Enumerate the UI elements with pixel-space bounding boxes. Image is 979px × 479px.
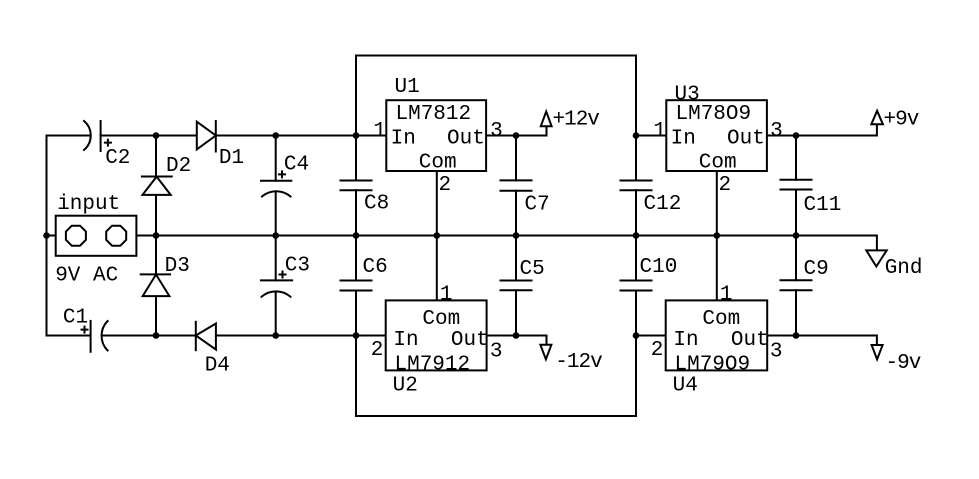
wire top rail left segment to C2 bbox=[47, 135, 91, 137]
junction node U2 input / C6 bbox=[353, 332, 360, 339]
svg-text:Out: Out bbox=[731, 329, 769, 352]
junction node ground / U3-U4 common bbox=[714, 232, 721, 239]
svg-text:In: In bbox=[391, 128, 416, 151]
wire left vertical rail bbox=[46, 136, 48, 336]
connector J1 pin 2 circle bbox=[106, 226, 126, 246]
svg-text:3: 3 bbox=[490, 120, 503, 143]
svg-text:C11: C11 bbox=[804, 194, 842, 217]
svg-text:D2: D2 bbox=[166, 155, 191, 178]
junction node D3 anode / D4 cathode bbox=[153, 332, 160, 339]
svg-text:C2: C2 bbox=[105, 147, 130, 170]
wire unregulated feed to U3 In (pin 1) bbox=[636, 135, 666, 137]
svg-text:D4: D4 bbox=[205, 355, 230, 378]
connector J1 pin 1 circle bbox=[66, 226, 86, 246]
svg-text:+9v: +9v bbox=[884, 109, 919, 132]
svg-text:2: 2 bbox=[651, 339, 664, 362]
svg-text:U1: U1 bbox=[395, 76, 420, 99]
svg-text:C12: C12 bbox=[644, 193, 682, 216]
wire U1 Out (pin 3) to +12v stub bbox=[486, 126, 546, 136]
junction node ground / D2-D3 bbox=[153, 232, 160, 239]
wire C7 column top bbox=[515, 136, 517, 181]
wire D2 column top bbox=[155, 136, 157, 177]
wire U3 pin 2 / U4 pin 1 common column bbox=[716, 171, 718, 300]
wire C5 column bottom bbox=[515, 290, 517, 335]
svg-text:Gnd: Gnd bbox=[885, 257, 923, 280]
wire D2 to D3 column bbox=[155, 195, 157, 275]
junction node -9v out / C9 bbox=[793, 332, 800, 339]
wire C3 column bottom bbox=[275, 292, 277, 336]
wire U1 pin 2 / U2 pin 1 common column bbox=[436, 171, 438, 301]
junction node U1 input / C8 bbox=[353, 132, 360, 139]
junction node ground / C11-C9 bbox=[793, 232, 800, 239]
capacitor C8 bbox=[341, 180, 372, 182]
svg-text:D3: D3 bbox=[165, 255, 190, 278]
svg-text:Out: Out bbox=[451, 329, 489, 352]
svg-text:Out: Out bbox=[447, 128, 485, 151]
junction node +9v out / C11 bbox=[793, 132, 800, 139]
wire bottom rail left segment to C1 bbox=[47, 335, 90, 337]
wire U3 Out (pin 3) to +9v stub bbox=[767, 124, 877, 135]
svg-text:In: In bbox=[673, 329, 698, 352]
wire top rail D1 to U1 In (pin 1) bbox=[216, 135, 386, 137]
capacitor C12 bbox=[621, 180, 652, 182]
svg-text:-12v: -12v bbox=[555, 351, 602, 374]
capacitor C11 bbox=[781, 179, 812, 181]
svg-text:3: 3 bbox=[770, 341, 783, 364]
wire D3 column bottom bbox=[155, 296, 157, 335]
capacitor C2 bbox=[84, 121, 91, 150]
junction node +12v out / C7 bbox=[513, 132, 520, 139]
svg-text:C5: C5 bbox=[520, 258, 545, 281]
wire unregulated loop top bbox=[356, 56, 636, 181]
svg-text:-9v: -9v bbox=[886, 352, 921, 375]
svg-text:In: In bbox=[671, 128, 696, 151]
capacitor C7 bbox=[501, 179, 532, 181]
svg-text:1: 1 bbox=[440, 284, 453, 307]
wire C11 to C9 column bbox=[795, 190, 797, 281]
svg-text:1: 1 bbox=[720, 284, 733, 307]
svg-text:LM7912: LM7912 bbox=[395, 353, 471, 376]
svg-text:Com: Com bbox=[422, 308, 460, 331]
svg-text:+12v: +12v bbox=[553, 109, 600, 132]
capacitor C6 bbox=[341, 280, 372, 282]
junction node ground / C12-C10 bbox=[633, 232, 640, 239]
wire loop right C12 to C10 bbox=[635, 190, 637, 280]
svg-text:U2: U2 bbox=[393, 375, 418, 398]
diode D3 bbox=[143, 275, 170, 297]
wire unregulated loop bottom bbox=[356, 291, 636, 417]
regulator U2 LM7912 body bbox=[386, 300, 487, 370]
junction node D1 anode / D2 cathode bbox=[153, 132, 160, 139]
regulator U4 LM7909 body bbox=[666, 300, 768, 370]
svg-text:C3: C3 bbox=[285, 254, 310, 277]
wire top rail C2 to D1 bbox=[101, 135, 197, 137]
svg-text:Out: Out bbox=[727, 128, 765, 151]
svg-text:In: In bbox=[393, 329, 418, 352]
svg-text:C9: C9 bbox=[804, 258, 829, 281]
connector J1 input body bbox=[56, 216, 137, 256]
svg-text:Com: Com bbox=[419, 152, 457, 175]
power -9v arrow bbox=[872, 345, 883, 359]
regulator U3 LM7809 body bbox=[666, 100, 767, 171]
svg-text:LM78O9: LM78O9 bbox=[676, 103, 752, 126]
svg-text:3: 3 bbox=[770, 120, 783, 143]
capacitor C4 bbox=[261, 180, 291, 182]
capacitor C1 bbox=[90, 321, 92, 352]
wire bottom rail D4 to U2 In (pin 2) bbox=[216, 335, 386, 337]
svg-text:input: input bbox=[57, 193, 120, 216]
svg-text:2: 2 bbox=[719, 174, 732, 197]
wire ground rail to input left pin bbox=[47, 235, 67, 237]
wire loop left C8 to C6 bbox=[355, 190, 357, 280]
svg-text:LM79O9: LM79O9 bbox=[675, 353, 751, 376]
svg-text:C1: C1 bbox=[63, 306, 88, 329]
svg-text:1: 1 bbox=[653, 120, 666, 143]
capacitor C9 bbox=[781, 279, 812, 281]
diode D4 bbox=[196, 324, 216, 350]
diode D2 bbox=[143, 177, 171, 195]
svg-text:2: 2 bbox=[371, 339, 384, 362]
capacitor C5 bbox=[501, 280, 532, 282]
junction node ground / C8-C6 bbox=[353, 232, 360, 239]
svg-text:U4: U4 bbox=[673, 375, 698, 398]
junction node ground / U1-U2 common bbox=[434, 232, 441, 239]
wire C7 to C5 column bbox=[515, 191, 517, 281]
regulator U1 LM7812 body bbox=[386, 100, 486, 171]
diode D1 bbox=[197, 122, 216, 150]
wire C4 to C3 column bbox=[275, 192, 277, 281]
svg-text:Com: Com bbox=[699, 152, 737, 175]
svg-text:C4: C4 bbox=[284, 154, 309, 177]
wire C9 column bottom bbox=[795, 290, 797, 335]
svg-text:9V AC: 9V AC bbox=[55, 264, 118, 287]
junction node rectifier - out / C3 bbox=[272, 332, 279, 339]
power +12v arrow bbox=[541, 112, 552, 127]
junction node rectifier + out / C4 bbox=[272, 132, 279, 139]
svg-text:C10: C10 bbox=[640, 256, 678, 279]
wire C4 column top bbox=[275, 136, 277, 181]
wire loop right to U4 In (pin 2) bbox=[636, 335, 666, 337]
junction node U4 input / C10 bbox=[633, 332, 640, 339]
junction node ground / input left pin bbox=[43, 232, 50, 239]
svg-text:C6: C6 bbox=[363, 256, 388, 279]
svg-text:LM7812: LM7812 bbox=[396, 103, 472, 126]
power -12v arrow bbox=[540, 345, 551, 360]
junction node U3 input / C12 bbox=[633, 132, 640, 139]
wire C11 column top bbox=[795, 136, 797, 180]
capacitor C3 bbox=[261, 279, 292, 281]
svg-text:3: 3 bbox=[490, 341, 503, 364]
junction node -12v out / C5 bbox=[513, 332, 520, 339]
svg-text:1: 1 bbox=[373, 120, 386, 143]
svg-text:C8: C8 bbox=[364, 193, 389, 216]
junction node ground / C4-C3 bbox=[272, 232, 279, 239]
wire U2 Out (pin 3) to -12v stub bbox=[487, 336, 546, 345]
wire ground rail from input right pin to Gnd stub bbox=[126, 236, 877, 250]
junction node ground / C7-C5 bbox=[513, 232, 520, 239]
svg-text:C7: C7 bbox=[525, 193, 550, 216]
ground Gnd symbol bbox=[866, 250, 886, 266]
wire bottom rail C1 to D4 bbox=[103, 335, 196, 337]
wire U4 Out (pin 3) to -9v stub bbox=[767, 336, 877, 346]
svg-text:Com: Com bbox=[702, 308, 740, 331]
power +9v arrow bbox=[871, 111, 883, 125]
svg-text:2: 2 bbox=[439, 174, 452, 197]
svg-text:D1: D1 bbox=[219, 147, 244, 170]
capacitor C10 bbox=[621, 280, 652, 282]
